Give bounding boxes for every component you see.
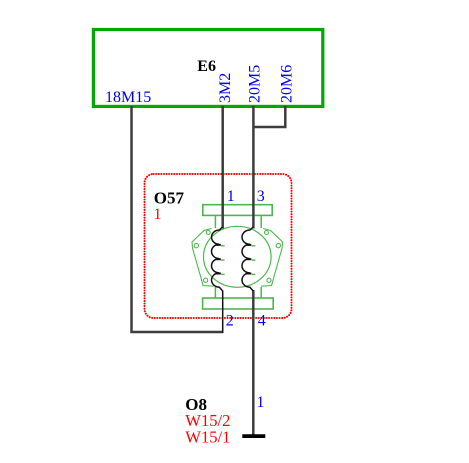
svg-text:W15/1: W15/1 xyxy=(185,428,230,447)
svg-text:4: 4 xyxy=(258,313,266,330)
right coil winding xyxy=(242,227,253,291)
motor M stub top-left xyxy=(214,216,216,229)
motor M stator circle xyxy=(204,226,272,287)
coil tap ticks left (green) xyxy=(221,246,225,275)
motor M top terminal bar xyxy=(203,205,272,216)
motor M stub bottom-right xyxy=(260,287,262,299)
wire 20M5 down to coil xyxy=(252,106,255,229)
wire 20M6 jog joining 20M5 net xyxy=(253,106,285,127)
motor M left mounting ear xyxy=(192,229,214,287)
svg-text:E6: E6 xyxy=(197,58,216,75)
svg-text:20M6: 20M6 xyxy=(279,65,296,103)
coil junction taps left xyxy=(216,245,221,274)
svg-text:O57: O57 xyxy=(154,189,185,208)
svg-text:1: 1 xyxy=(154,206,162,223)
motor M right mounting ear xyxy=(261,229,283,287)
svg-text:1: 1 xyxy=(257,394,265,411)
left coil winding xyxy=(212,227,223,333)
svg-text:2: 2 xyxy=(226,313,234,330)
svg-text:20M5: 20M5 xyxy=(247,65,264,103)
motor M stub top-right xyxy=(260,216,262,229)
coil tap ticks right (green) xyxy=(252,246,256,275)
motor M bottom terminal bar xyxy=(203,298,274,309)
svg-text:18M15: 18M15 xyxy=(105,89,151,106)
svg-text:3: 3 xyxy=(257,188,265,205)
svg-text:1: 1 xyxy=(227,188,235,205)
wire 3M2 down to coil xyxy=(221,106,224,229)
coil junction taps right xyxy=(247,245,252,274)
component O57 dashed boundary box xyxy=(145,174,292,318)
svg-text:3M2: 3M2 xyxy=(217,73,234,103)
ground symbol W15 xyxy=(242,434,265,438)
motor M stub bottom-left xyxy=(214,287,216,299)
wire motor pin 4 to ground xyxy=(252,290,255,435)
wire 18M15 to motor pin 2 xyxy=(132,106,223,332)
control unit E6 box xyxy=(93,30,322,107)
